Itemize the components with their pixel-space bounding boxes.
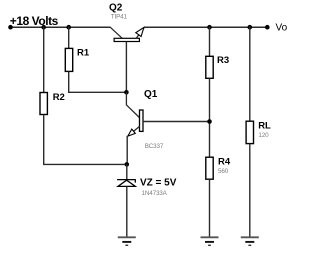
transistor Q2 emitter lead [136, 27, 144, 38]
svg-text:TIP41: TIP41 [111, 14, 128, 21]
svg-text:560: 560 [218, 168, 229, 175]
label Q1 [144, 89, 158, 100]
svg-text:R4: R4 [218, 156, 231, 167]
transistor Q2 collector lead [110, 27, 122, 38]
svg-text:R1: R1 [77, 47, 90, 58]
wire top rail right (Q2 emitter to Vo) [144, 26, 267, 28]
wire R1 top lead [68, 27, 70, 49]
transistor Q1 base bar [140, 110, 144, 131]
resistor R3 [206, 56, 213, 78]
transistor Q2 base bar [114, 38, 139, 41]
label R1 [77, 47, 90, 58]
wire R2 top lead [43, 27, 45, 93]
ground under zener [118, 237, 136, 245]
resistor R4 [206, 157, 213, 179]
svg-text:1N4733A: 1N4733A [142, 190, 168, 197]
node Q2 base / R1 / Q1 collector junction [124, 90, 129, 95]
svg-text:BC337: BC337 [145, 143, 164, 150]
wire R2 bottom to zener node [44, 115, 127, 165]
label R4 [218, 156, 231, 167]
wire R1 bottom to Q2 base node [69, 71, 127, 92]
svg-text:+18 Volts: +18 Volts [10, 14, 59, 28]
wire top rail left (+18V to Q2 collector) [11, 26, 111, 28]
transistor Q1 base lead [143, 121, 210, 123]
resistor R2 [40, 93, 47, 115]
label Vo [276, 23, 288, 34]
zener diode VZ cathode bar [117, 180, 136, 183]
zener diode VZ anode triangle [118, 180, 135, 186]
resistor R1 [65, 48, 72, 71]
label R2 [53, 92, 65, 103]
svg-text:Q1: Q1 [144, 89, 158, 100]
label TIP41 [111, 14, 128, 21]
resistor RL [246, 121, 253, 143]
svg-text:RL: RL [258, 121, 271, 132]
wire RL bottom to ground [249, 144, 251, 237]
ground under R4 [201, 237, 219, 245]
label 120 [258, 132, 269, 139]
wire R3 top lead [209, 27, 211, 57]
wire RL top lead [249, 27, 251, 122]
node R2 top junction [41, 25, 46, 30]
svg-text:VZ = 5V: VZ = 5V [140, 177, 177, 188]
svg-text:Vo: Vo [276, 23, 288, 34]
node R3 R4 divider junction [207, 119, 212, 124]
node zener top junction [125, 162, 130, 167]
label VZ = 5V [140, 177, 177, 188]
label Q2 [109, 3, 123, 14]
node R3 top junction [207, 25, 212, 30]
svg-text:Q2: Q2 [109, 3, 123, 14]
transistor Q2 base lead [125, 42, 127, 93]
wire Q1 emitter down to zener node [126, 136, 128, 165]
label BC337 [145, 143, 164, 150]
transistor Q1 emitter lead [128, 126, 140, 135]
svg-text:R3: R3 [217, 55, 229, 66]
label +18 Volts [10, 14, 59, 28]
wire R4 bottom to ground [209, 179, 211, 236]
label RL [258, 121, 271, 132]
svg-text:120: 120 [258, 132, 269, 139]
label 560 [218, 168, 229, 175]
node R1 top junction [66, 25, 71, 30]
transistor Q1 emitter arrowhead [128, 129, 136, 136]
wire R3 bottom to R4 top [209, 78, 211, 157]
node left rail endpoint [8, 25, 13, 30]
wire zener top lead [126, 164, 128, 179]
node RL top junction [248, 25, 253, 30]
node Vo rail endpoint [265, 25, 270, 30]
label 1N4733A [142, 190, 168, 197]
wire zener anode to ground [126, 186, 128, 236]
transistor Q1 collector lead [126, 92, 139, 117]
svg-text:R2: R2 [53, 92, 65, 103]
label R3 [217, 55, 229, 66]
transistor Q2 emitter arrowhead [136, 27, 144, 36]
ground under RL [241, 237, 259, 245]
